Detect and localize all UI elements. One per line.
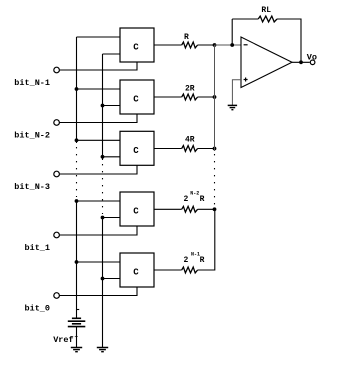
svg-text:bit_N-2: bit_N-2 xyxy=(14,130,50,140)
wire U2 output to resistor 2R xyxy=(154,96,182,98)
node ground tap U4 xyxy=(101,216,105,220)
node output / feedback junction xyxy=(299,60,303,64)
wire Vref tap to switch U3 upper input xyxy=(77,139,121,141)
summing line vertical (solid top) xyxy=(214,45,216,151)
wire control U1 to bit_N-1 terminal xyxy=(59,62,137,70)
wire resistor R to summing node xyxy=(198,44,215,46)
svg-text:4R: 4R xyxy=(185,136,195,145)
summing line vertical (solid bottom) xyxy=(198,208,216,270)
svg-text:N-2: N-2 xyxy=(190,191,199,197)
svg-text:C: C xyxy=(133,43,139,53)
battery Vref polarity plus tick xyxy=(77,309,80,311)
svg-text:Vo: Vo xyxy=(307,53,317,63)
wire ground tap to switch U4 lower input xyxy=(103,217,121,219)
svg-text:Vref: Vref xyxy=(53,335,73,345)
svg-text:R: R xyxy=(200,256,205,265)
terminal bit_N-2 xyxy=(54,120,60,126)
terminal Vo xyxy=(310,60,315,65)
wire ground tap to switch U2 lower input xyxy=(103,105,121,107)
svg-text:bit_0: bit_0 xyxy=(25,303,51,313)
switch U3 (C) xyxy=(120,131,154,165)
svg-text:C: C xyxy=(133,146,139,156)
ground bus vertical wire (solid top) xyxy=(102,54,104,160)
ground bus vertical wire (solid bottom to ground) xyxy=(102,216,104,348)
op-amp U6 triangle xyxy=(241,37,292,88)
node Vref tap U3 xyxy=(75,138,79,142)
wire op-amp output xyxy=(292,61,310,63)
Vref bus dotted continuation xyxy=(76,147,78,197)
resistor 2R xyxy=(182,94,198,100)
svg-text:bit_N-1: bit_N-1 xyxy=(14,78,50,88)
switch U4 (C) xyxy=(120,192,154,226)
node feedback tap xyxy=(230,43,234,47)
summing line dotted continuation xyxy=(214,154,216,206)
wire feedback top left segment xyxy=(232,18,258,20)
resistor RL xyxy=(258,16,277,22)
wire U1 output to resistor R xyxy=(154,44,182,46)
svg-text:2: 2 xyxy=(184,195,189,204)
wire Vref tap to switch U4 upper input xyxy=(77,200,121,202)
node summing 2R xyxy=(213,95,217,99)
wire Vref tap to switch U2 upper input xyxy=(77,88,121,90)
node Vref tap U4 xyxy=(75,199,79,203)
terminal bit_0 xyxy=(54,293,60,299)
svg-text:C: C xyxy=(133,207,139,217)
wire control U4 to bit_1 terminal xyxy=(59,226,137,235)
node summing 2^(N-2)R xyxy=(213,207,217,211)
terminal bit_N-1 xyxy=(54,67,60,73)
node ground tap U3 xyxy=(101,155,105,159)
svg-text:bit_N-3: bit_N-3 xyxy=(14,182,50,192)
node ground tap U5 xyxy=(101,277,105,281)
wire feedback top right segment xyxy=(277,19,301,62)
terminal bit_1 xyxy=(54,232,60,238)
wire Vref bus top bend to switch U1 upper input xyxy=(77,36,121,38)
resistor 2^(N-1)R xyxy=(182,267,198,273)
wire battery to ground xyxy=(76,327,78,348)
Vref bus vertical wire (solid top) xyxy=(76,37,78,143)
wire feedback loop left vertical xyxy=(231,19,233,45)
wire op-amp noninverting input to ground xyxy=(232,80,241,106)
wire ground bus top bend to switch U1 lower input xyxy=(103,53,121,55)
svg-text:R: R xyxy=(184,33,189,42)
wire resistor 2R to summing node xyxy=(198,96,215,98)
wire U3 output to resistor 4R xyxy=(154,148,182,150)
wire U5 output to resistor 2^(N-1)R xyxy=(154,269,182,271)
wire resistor 4R to summing node xyxy=(198,148,215,150)
switch U5 (C) xyxy=(120,253,154,287)
ground (below battery) xyxy=(71,348,82,352)
resistor 4R xyxy=(182,146,198,152)
svg-text:C: C xyxy=(133,95,139,105)
svg-text:R: R xyxy=(200,195,205,204)
svg-text:bit_1: bit_1 xyxy=(25,243,51,253)
wire summing node to op-amp inverting input xyxy=(215,44,242,46)
node summing 4R xyxy=(213,147,217,151)
switch U2 (C) xyxy=(120,80,154,114)
wire ground tap to switch U3 lower input xyxy=(103,156,121,158)
wire ground tap to switch U5 lower input xyxy=(103,278,121,280)
wire resistor 2^(N-2)R to summing node xyxy=(198,208,215,210)
svg-text:RL: RL xyxy=(261,6,271,15)
battery Vref xyxy=(68,318,86,326)
resistor 2^(N-2)R xyxy=(182,206,198,212)
wire U4 output to resistor 2^(N-2)R xyxy=(154,208,182,210)
ground (op-amp + input) xyxy=(228,105,237,109)
switch U1 (C) xyxy=(120,28,154,62)
wire Vref tap to switch U5 upper input xyxy=(77,261,121,263)
node summing R xyxy=(213,43,217,47)
resistor R xyxy=(182,42,198,48)
node ground tap U2 xyxy=(101,104,105,108)
wire control U3 to bit_N-3 terminal xyxy=(59,165,137,174)
svg-text:2: 2 xyxy=(184,256,189,265)
svg-text:C: C xyxy=(133,268,139,278)
ground (ground bus bottom) xyxy=(97,348,108,352)
wire control U5 to bit_0 terminal xyxy=(59,287,137,296)
svg-text:2R: 2R xyxy=(185,85,195,94)
op-amp plus sign xyxy=(244,78,248,82)
terminal bit_N-3 xyxy=(54,171,60,177)
wire control U2 to bit_N-2 terminal xyxy=(59,114,137,123)
Vref bus vertical wire (solid bottom to battery) xyxy=(76,200,78,318)
op-amp minus sign xyxy=(244,44,248,46)
node Vref tap U5 xyxy=(75,260,79,264)
node Vref tap U2 xyxy=(75,87,79,91)
ground bus dotted continuation xyxy=(102,164,104,214)
